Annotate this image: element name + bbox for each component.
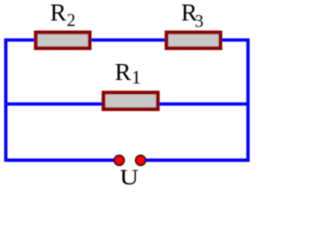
svg-text:U: U bbox=[120, 165, 139, 187]
svg-text:R: R bbox=[50, 0, 67, 27]
svg-text:3: 3 bbox=[195, 11, 204, 31]
svg-text:1: 1 bbox=[132, 68, 142, 89]
svg-text:R: R bbox=[115, 59, 132, 86]
svg-text:2: 2 bbox=[67, 10, 76, 30]
